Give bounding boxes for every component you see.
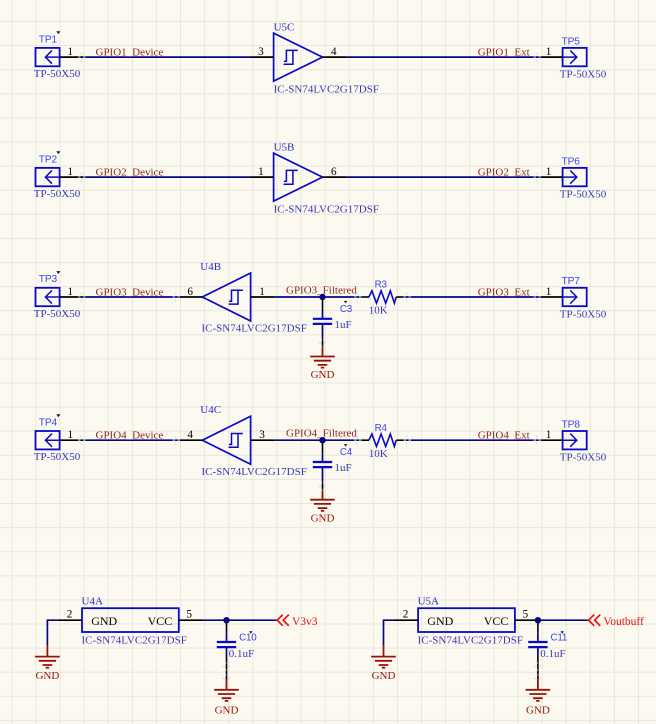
svg-text:Voutbuff: Voutbuff xyxy=(603,616,644,628)
svg-text:0.1uF: 0.1uF xyxy=(540,648,565,660)
TP2 marker triangle xyxy=(56,151,60,154)
ground stem xyxy=(322,490,324,500)
test point TP3 pin 1 xyxy=(60,296,84,298)
buffer U5C output pin 4 xyxy=(323,56,347,58)
svg-text:1uF: 1uF xyxy=(335,462,352,474)
buffer U4C input pin 4 xyxy=(178,439,202,441)
svg-text:TP5: TP5 xyxy=(562,36,581,47)
test point TP1 arrow xyxy=(45,51,59,64)
buffer U4C triangle body xyxy=(202,416,250,464)
junction node GPIO4_Filtered xyxy=(319,437,325,443)
svg-text:1: 1 xyxy=(68,46,74,58)
test point TP7 pin 1 xyxy=(539,296,563,298)
svg-text:U4B: U4B xyxy=(200,261,221,273)
svg-text:6: 6 xyxy=(331,166,337,178)
svg-text:GND: GND xyxy=(427,614,453,628)
svg-text:TP-50X50: TP-50X50 xyxy=(560,188,607,200)
resistor R3 body xyxy=(369,291,396,303)
wire pin 2 to ground xyxy=(384,620,395,645)
svg-text:C4: C4 xyxy=(340,447,353,458)
svg-text:IC-SN74LVC2G17DSF: IC-SN74LVC2G17DSF xyxy=(418,634,523,646)
U4A pin 5 xyxy=(179,619,203,621)
svg-text:IC-SN74LVC2G17DSF: IC-SN74LVC2G17DSF xyxy=(274,203,379,215)
faint connection marks xyxy=(78,53,86,62)
svg-text:1: 1 xyxy=(546,286,552,298)
svg-text:TP4: TP4 xyxy=(39,417,58,428)
test point TP4 pin 1 xyxy=(60,439,84,441)
test point TP2 arrow xyxy=(45,171,59,184)
wire junction to capacitor C3 xyxy=(322,299,324,311)
svg-text:3: 3 xyxy=(258,46,264,58)
wire net GPIO4_Filtered xyxy=(275,439,359,441)
wire net GPIO4_Device xyxy=(84,439,179,441)
svg-text:TP-50X50: TP-50X50 xyxy=(34,68,81,80)
wire junction to capacitor C11 xyxy=(537,622,539,632)
test point TP7 arrow xyxy=(563,290,577,303)
C10 marker xyxy=(249,631,252,634)
wire junction to capacitor C10 xyxy=(226,622,228,632)
ground symbol xyxy=(310,357,335,368)
capacitor C3 plates xyxy=(313,319,332,324)
buffer U5C input pin 3 xyxy=(250,56,274,58)
svg-text:GND: GND xyxy=(215,705,239,717)
svg-text:C11: C11 xyxy=(551,633,568,644)
svg-text:10K: 10K xyxy=(369,305,388,317)
wire net GPIO1_Device xyxy=(84,56,250,58)
ground symbol xyxy=(526,690,551,701)
buffer U4C output pin 3 xyxy=(251,439,275,441)
svg-text:U5C: U5C xyxy=(274,22,295,34)
buffer U4B schmitt symbol xyxy=(229,290,243,304)
svg-text:TP3: TP3 xyxy=(39,274,58,285)
buffer U5C schmitt symbol xyxy=(284,50,298,64)
C3 marker xyxy=(344,301,347,304)
buffer U5C triangle body xyxy=(274,33,323,81)
ground symbol xyxy=(35,657,60,668)
buffer U4B triangle body xyxy=(202,273,250,321)
svg-text:IC-SN74LVC2G17DSF: IC-SN74LVC2G17DSF xyxy=(274,83,379,95)
faint connection marks xyxy=(78,293,86,302)
wire net GPIO2_Device xyxy=(84,176,250,178)
svg-text:VCC: VCC xyxy=(484,614,509,628)
buffer U4C schmitt symbol xyxy=(229,434,243,448)
U5A pin 5 xyxy=(515,619,539,621)
svg-text:IC-SN74LVC2G17DSF: IC-SN74LVC2G17DSF xyxy=(202,466,307,478)
svg-text:GND: GND xyxy=(372,670,396,682)
test point TP5 symbol body xyxy=(563,48,587,66)
IC U5A body xyxy=(418,608,515,632)
buffer U5B input pin 1 xyxy=(250,176,274,178)
ground stem xyxy=(46,645,48,657)
wire junction to capacitor C4 xyxy=(322,442,324,454)
svg-text:GPIO1_Ext: GPIO1_Ext xyxy=(478,47,530,59)
test point TP2 symbol body xyxy=(36,168,60,186)
wire net GPIO2_Ext xyxy=(347,176,539,178)
resistor R3 left pin xyxy=(359,296,369,298)
svg-text:IC-SN74LVC2G17DSF: IC-SN74LVC2G17DSF xyxy=(82,634,187,646)
test point TP7 symbol body xyxy=(563,288,587,306)
test point TP4 arrow xyxy=(45,434,59,447)
svg-text:GPIO2_Device: GPIO2_Device xyxy=(96,167,164,179)
TP3 marker triangle xyxy=(56,271,60,274)
ground stem xyxy=(537,679,539,690)
buffer U4B output pin 1 xyxy=(251,296,275,298)
wire capacitor C11 to ground xyxy=(537,647,539,656)
TP1 marker triangle xyxy=(56,31,60,34)
test point TP6 arrow xyxy=(563,171,577,184)
svg-text:GND: GND xyxy=(526,705,550,717)
test point TP8 arrow xyxy=(563,434,577,447)
svg-text:U4A: U4A xyxy=(82,595,103,607)
IC U4A body xyxy=(82,608,179,632)
resistor R4 body xyxy=(369,434,396,446)
svg-text:TP2: TP2 xyxy=(39,154,58,165)
svg-text:5: 5 xyxy=(523,609,529,621)
wire pin 2 to ground xyxy=(47,620,58,645)
svg-text:10K: 10K xyxy=(369,448,388,460)
svg-text:TP-50X50: TP-50X50 xyxy=(34,451,81,463)
wire net GPIO3_Ext xyxy=(405,296,539,298)
svg-text:GPIO1_Device: GPIO1_Device xyxy=(96,47,164,59)
svg-text:C10: C10 xyxy=(239,633,257,644)
svg-text:TP7: TP7 xyxy=(562,276,581,287)
wire net GPIO1_Ext xyxy=(347,56,539,58)
svg-text:TP8: TP8 xyxy=(562,419,581,430)
ground symbol xyxy=(214,690,239,701)
svg-text:1: 1 xyxy=(546,429,552,441)
resistor R3 right pin xyxy=(396,296,405,298)
C11 marker xyxy=(561,631,564,634)
svg-text:3: 3 xyxy=(259,429,265,441)
svg-text:GND: GND xyxy=(35,670,59,682)
svg-text:GPIO4_Ext: GPIO4_Ext xyxy=(478,430,530,442)
test point TP3 arrow xyxy=(45,290,59,303)
svg-text:2: 2 xyxy=(67,609,73,621)
svg-text:1: 1 xyxy=(68,286,74,298)
junction node GPIO3_Filtered xyxy=(319,294,325,300)
U4A pin 2 xyxy=(58,619,82,621)
buffer U5B output pin 6 xyxy=(323,176,347,178)
junction node Voutbuff xyxy=(535,617,541,623)
svg-text:U5B: U5B xyxy=(274,142,295,154)
svg-text:1: 1 xyxy=(259,286,265,298)
svg-text:5: 5 xyxy=(186,609,192,621)
C4 marker xyxy=(344,444,347,447)
wire net GPIO3_Filtered xyxy=(275,296,359,298)
svg-text:IC-SN74LVC2G17DSF: IC-SN74LVC2G17DSF xyxy=(202,323,307,335)
svg-text:TP6: TP6 xyxy=(562,156,581,167)
TP4 marker triangle xyxy=(56,414,60,417)
test point TP5 arrow xyxy=(563,51,577,64)
test point TP1 symbol body xyxy=(36,48,60,66)
svg-text:TP-50X50: TP-50X50 xyxy=(560,68,607,80)
test point TP8 pin 1 xyxy=(539,439,563,441)
test point TP6 symbol body xyxy=(563,168,587,186)
svg-text:1: 1 xyxy=(68,429,74,441)
svg-text:GPIO3_Device: GPIO3_Device xyxy=(96,286,164,298)
wire capacitor C4 to ground xyxy=(322,467,324,481)
svg-text:1: 1 xyxy=(546,166,552,178)
junction node V3v3 xyxy=(223,617,229,623)
test point TP1 pin 1 xyxy=(60,56,84,58)
svg-text:TP-50X50: TP-50X50 xyxy=(34,308,81,320)
svg-text:U4C: U4C xyxy=(200,404,221,416)
test point TP3 symbol body xyxy=(36,288,60,306)
power port V3v3 chevrons xyxy=(277,615,289,626)
svg-text:0.1uF: 0.1uF xyxy=(229,648,254,660)
svg-text:2: 2 xyxy=(403,609,409,621)
svg-text:1: 1 xyxy=(546,46,552,58)
ground stem xyxy=(383,645,385,657)
svg-text:C3: C3 xyxy=(340,304,353,315)
svg-text:TP-50X50: TP-50X50 xyxy=(560,452,607,464)
svg-text:4: 4 xyxy=(187,429,193,441)
ground stem xyxy=(226,679,228,690)
svg-text:GPIO2_Ext: GPIO2_Ext xyxy=(478,167,530,179)
svg-text:GND: GND xyxy=(91,614,117,628)
wire net GPIO4_Ext xyxy=(405,439,539,441)
faint connection marks xyxy=(78,436,86,445)
wire capacitor C10 to ground xyxy=(226,647,228,656)
svg-text:GPIO3_Ext: GPIO3_Ext xyxy=(478,286,530,298)
svg-text:GND: GND xyxy=(311,369,335,381)
svg-text:1: 1 xyxy=(258,166,264,178)
wire net V3v3 xyxy=(203,619,277,621)
svg-text:GPIO4_Device: GPIO4_Device xyxy=(96,430,164,442)
buffer U5B triangle body xyxy=(274,153,323,201)
wire capacitor C3 to ground xyxy=(322,324,324,338)
svg-text:6: 6 xyxy=(187,286,193,298)
power port Voutbuff chevrons xyxy=(589,615,601,626)
svg-text:TP1: TP1 xyxy=(39,34,58,45)
ground symbol xyxy=(371,657,396,668)
svg-text:VCC: VCC xyxy=(148,614,173,628)
svg-text:TP-50X50: TP-50X50 xyxy=(34,188,81,200)
svg-text:U5A: U5A xyxy=(418,595,439,607)
test point TP8 symbol body xyxy=(563,431,587,449)
wire net Voutbuff xyxy=(539,619,588,621)
ground symbol xyxy=(310,500,335,511)
svg-text:4: 4 xyxy=(331,46,337,58)
svg-text:GND: GND xyxy=(311,512,335,524)
svg-text:1: 1 xyxy=(68,166,74,178)
svg-text:V3v3: V3v3 xyxy=(292,616,318,628)
capacitor C10 plates xyxy=(217,642,236,647)
test point TP2 pin 1 xyxy=(60,176,84,178)
test point TP4 symbol body xyxy=(36,431,60,449)
buffer U5B schmitt symbol xyxy=(284,170,298,184)
capacitor C4 plates xyxy=(313,462,332,467)
resistor R4 right pin xyxy=(396,439,405,441)
test point TP5 pin 1 xyxy=(539,56,563,58)
resistor R4 left pin xyxy=(359,439,369,441)
test point TP6 pin 1 xyxy=(539,176,563,178)
faint connection marks xyxy=(78,173,86,182)
buffer U4B input pin 6 xyxy=(178,296,202,298)
capacitor C11 plates xyxy=(528,642,547,647)
svg-text:TP-50X50: TP-50X50 xyxy=(560,308,607,320)
ground stem xyxy=(322,347,324,357)
U5A pin 2 xyxy=(394,619,418,621)
wire net GPIO3_Device xyxy=(84,296,179,298)
svg-text:1uF: 1uF xyxy=(335,319,352,331)
